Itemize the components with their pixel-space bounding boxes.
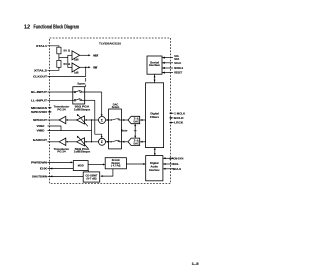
svg-text:Interface: Interface bbox=[149, 168, 160, 172]
svg-text:SPKOUT: SPKOUT bbox=[33, 118, 47, 122]
svg-text:□ PCM-SYN: □ PCM-SYN bbox=[169, 156, 183, 160]
svg-text:XTAL2: XTAL2 bbox=[34, 68, 48, 72]
svg-text:CLKOUT: CLKOUT bbox=[33, 75, 47, 79]
svg-text:(V-7 dB): (V-7 dB) bbox=[87, 177, 97, 181]
svg-text:BCLK: BCLK bbox=[174, 116, 184, 120]
svg-text:BL-INPUT: BL-INPUT bbox=[31, 90, 47, 94]
svg-text:PWRDWN: PWRDWN bbox=[31, 161, 47, 165]
svg-text:SPKVDD: SPKVDD bbox=[31, 110, 47, 114]
svg-text:EAROUT: EAROUT bbox=[33, 138, 47, 142]
svg-text:50 Ω: 50 Ω bbox=[64, 62, 71, 66]
svg-text:SHUTDWN: SHUTDWN bbox=[32, 175, 47, 179]
svg-text:Audio: Audio bbox=[151, 165, 159, 169]
svg-text:1 dB: 1 dB bbox=[74, 70, 79, 74]
svg-text:□ MCLK: □ MCLK bbox=[174, 111, 185, 115]
svg-text:Interface: Interface bbox=[149, 63, 160, 67]
svg-text:DAC: DAC bbox=[133, 141, 139, 145]
svg-text:Functional Block Diagram: Functional Block Diagram bbox=[34, 25, 80, 31]
svg-text:50 Ω: 50 Ω bbox=[64, 49, 71, 53]
svg-text:1 dB: 1 dB bbox=[74, 57, 79, 61]
svg-text:PG 24: PG 24 bbox=[57, 107, 66, 111]
svg-text:PG 24: PG 24 bbox=[57, 150, 66, 154]
svg-text:SDA-S: SDA-S bbox=[173, 167, 182, 171]
svg-text:Bypass: Bypass bbox=[78, 81, 86, 85]
svg-text:SCL: SCL bbox=[173, 162, 180, 166]
svg-text:TLV320AIC1110: TLV320AIC1110 bbox=[99, 42, 121, 46]
svg-text:DAC: DAC bbox=[133, 120, 139, 124]
svg-text:Digital: Digital bbox=[150, 161, 159, 165]
svg-text:RESET: RESET bbox=[174, 71, 182, 75]
svg-text:LRCK: LRCK bbox=[174, 121, 183, 125]
svg-text:[ 4.7 Pd]: [ 4.7 Pd] bbox=[111, 164, 120, 168]
svg-text:Select: Select bbox=[112, 105, 120, 109]
svg-text:VMID: VMID bbox=[37, 129, 45, 133]
svg-text:VREF: VREF bbox=[37, 124, 45, 128]
svg-text:MOD: MOD bbox=[78, 164, 84, 168]
svg-text:1–5: 1–5 bbox=[192, 262, 199, 266]
svg-text:1.2: 1.2 bbox=[24, 25, 30, 31]
svg-text:XTAL1: XTAL1 bbox=[36, 44, 48, 48]
svg-text:Mute: Mute bbox=[121, 129, 128, 133]
svg-text:1dBSteps: 1dBSteps bbox=[74, 150, 91, 154]
svg-text:1dBSteps: 1dBSteps bbox=[74, 107, 91, 111]
svg-text:MODE-S: MODE-S bbox=[174, 66, 183, 70]
svg-text:DX: DX bbox=[40, 167, 47, 171]
svg-text:LL-INPUT: LL-INPUT bbox=[31, 98, 47, 102]
svg-text:MOUT: MOUT bbox=[93, 53, 98, 57]
svg-text:Filters: Filters bbox=[150, 116, 160, 119]
svg-text:FOUT: FOUT bbox=[93, 65, 97, 69]
svg-text:SCLK: SCLK bbox=[174, 61, 181, 65]
